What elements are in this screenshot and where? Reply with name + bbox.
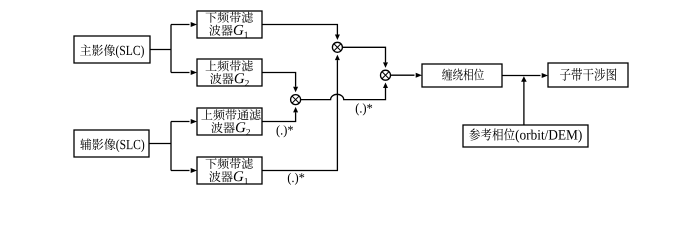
wire: branch to upper-band filter G2 (slave): [171, 121, 190, 123]
wire: wrapped phase to sub-band interferogram: [502, 75, 541, 77]
wire: M1 output to M2 top: [342, 47, 385, 62]
box: upper band filter G2 (master): [197, 59, 262, 86]
box: master image 主影像(SLC): [74, 36, 150, 63]
box: upper band-pass filter G2 (slave): [197, 108, 262, 135]
multiplier node M2 (circle-cross): [381, 70, 391, 80]
text 主影像(SLC): [80, 44, 91, 55]
wire: branch to lower-band filter G1 (slave): [171, 170, 190, 172]
box: reference phase 参考相位(orbit/DEM): [463, 125, 588, 147]
wire: reference phase up to interferogram wire: [523, 82, 525, 126]
wire: aux branch vertical: [170, 122, 172, 171]
text 子带干涉图: [560, 69, 571, 81]
multiplier node M3 (circle-cross): [291, 95, 301, 105]
box: wrapped phase 缠绕相位: [422, 64, 502, 87]
text 辅影像(SLC): [80, 139, 91, 151]
box: sub-band interferogram 子带干涉图: [548, 63, 628, 87]
wire: main branch vertical: [170, 25, 172, 73]
wire: filter G2 slave to multiplier M3 bottom: [262, 112, 296, 121]
arrowhead into sub-band interferogram box: [542, 73, 548, 78]
box: auxiliary image 辅影像(SLC): [74, 130, 149, 157]
box: lower band filter G1 (slave): [197, 157, 262, 184]
box: lower band filter G1 (master): [197, 11, 262, 38]
text 下频带滤: [206, 12, 217, 23]
text 波器G2: [210, 73, 221, 84]
wire: filter G1 slave up to multiplier M1 bottom (crosses under hop): [262, 60, 337, 170]
wire: filter G1 master to multiplier M1 top: [262, 25, 337, 35]
multiplier node M1 (circle-cross): [332, 42, 342, 52]
wire: branch to lower-band filter G1 (master): [171, 24, 190, 26]
arrowhead into M3 top: [293, 87, 298, 93]
arrowhead into wrapped-phase box: [416, 73, 422, 78]
wire: filter G2 master to multiplier M3 top: [262, 73, 296, 87]
wire: main SLC output: [150, 49, 171, 51]
arrowhead into M1 top: [335, 35, 340, 41]
text 参考相位(orbit/DEM): [469, 128, 480, 140]
label (.)* conjugate on slave lower branch: [288, 173, 291, 185]
arrowhead into filter G1 (master): [191, 22, 197, 27]
wire: branch to upper-band filter G2 (master): [171, 72, 190, 74]
text 上频带滤: [206, 60, 217, 70]
wire: M2 output to wrapped-phase box: [391, 74, 415, 76]
text 波器G1: [209, 25, 220, 36]
arrowhead into filter G2 (slave): [191, 119, 197, 124]
label (.)* conjugate on M3 output: [356, 103, 359, 115]
arrowhead into filter G1 (slave): [191, 168, 197, 173]
arrowhead into M2 top: [383, 62, 388, 68]
wire: aux SLC output: [149, 143, 171, 145]
arrowhead into M1 bottom: [335, 55, 340, 61]
arrowhead into filter G2 (master): [191, 70, 197, 75]
text 上频带通滤: [201, 109, 212, 119]
text 下频带滤: [206, 158, 217, 169]
text 波器G2: [211, 122, 222, 133]
arrowhead into M2 bottom: [383, 83, 388, 89]
arrowhead up into horizontal wire: [521, 76, 527, 82]
wire: M3 output to M2 bottom with crossover hop: [301, 88, 386, 100]
text 缠绕相位: [442, 69, 452, 81]
label (.)* conjugate on slave upper branch: [277, 125, 280, 137]
arrowhead into M3 bottom: [293, 107, 298, 113]
text 波器G1: [209, 171, 220, 182]
